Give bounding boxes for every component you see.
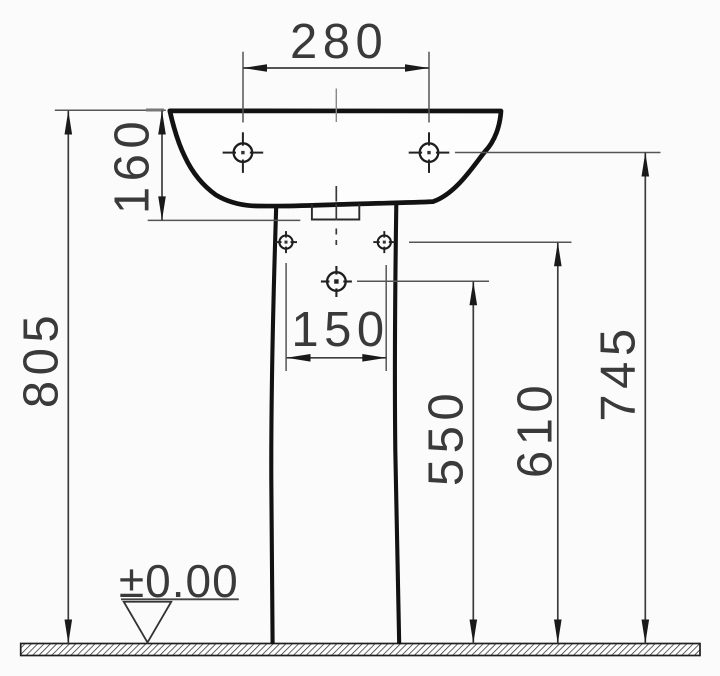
svg-text:150: 150: [291, 303, 389, 357]
datum triangle: [124, 602, 172, 643]
datum underline: [121, 598, 239, 600]
extension line bottom of 160: [148, 219, 301, 221]
leader for 550 (center hole level): [357, 280, 489, 282]
floor (hatched ground strip): [21, 644, 700, 656]
pedestal center fixing hole: [321, 266, 352, 297]
svg-text:160: 160: [106, 116, 160, 214]
centerline (vertical axis): [335, 89, 337, 246]
basin tap hole left: [223, 132, 264, 173]
pedestal hole right: [373, 231, 395, 253]
leader for 745 (tap hole level): [455, 152, 661, 154]
svg-text:280: 280: [290, 15, 388, 69]
pedestal left edge: [271, 207, 276, 645]
basin body: [170, 111, 501, 206]
dim 550 line: [472, 281, 474, 643]
basin tap hole right: [409, 132, 450, 173]
dim 150: [285, 263, 287, 371]
extension line top (805/160 datum): [55, 109, 166, 111]
dim 745 line: [644, 153, 646, 644]
dim 610 line: [557, 242, 559, 643]
drain recess rectangle: [312, 204, 359, 220]
svg-text:745: 745: [592, 323, 646, 421]
svg-text:550: 550: [420, 388, 474, 486]
pedestal right edge: [395, 205, 399, 645]
dim 805 line: [67, 111, 69, 644]
dim 280: [242, 52, 244, 123]
svg-text:610: 610: [509, 380, 563, 478]
pedestal hole left: [275, 231, 297, 253]
leader for 610 (upper pedestal holes level): [409, 241, 572, 243]
svg-text:805: 805: [15, 310, 69, 408]
dim 160 line: [161, 111, 163, 221]
